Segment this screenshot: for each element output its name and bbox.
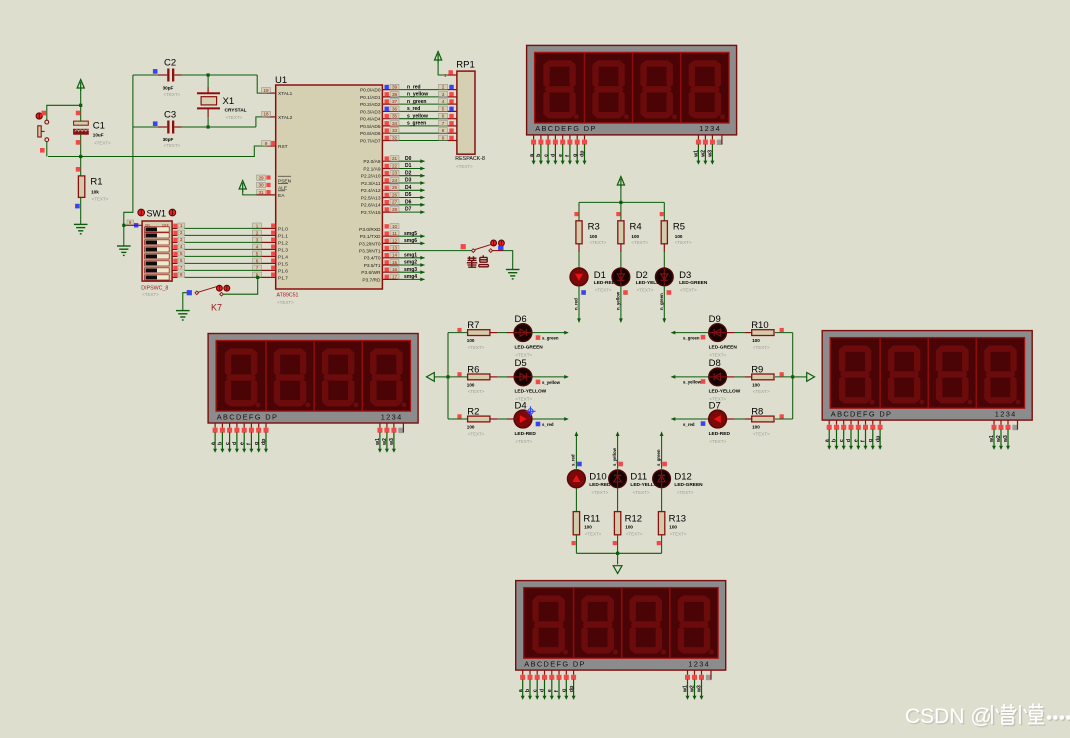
SW1 slider 3 [145,240,170,245]
resistor R10 [775,332,793,334]
actuator markers (red circles) [491,240,497,246]
DIP switch SW1 DIPSWC_8 [142,221,172,281]
wire D2 to terminal [620,286,622,322]
7-seg display DISP4 (bottom/south) [516,581,726,700]
resistor R9 [775,376,793,378]
svg-text:D4: D4 [515,400,527,411]
watermark CSDN [905,705,993,730]
pin P3.6/WR (16) [385,267,389,271]
capacitor C3 [167,121,174,134]
svg-text:P1.1: P1.1 [278,233,288,239]
svg-text:R3: R3 [588,222,600,233]
node RST junction [79,155,82,158]
pin P3.5/T1 (15) [385,260,389,264]
label 紧急 (emergency) [467,255,489,267]
7-seg display DISP3 (right/east) [822,331,1032,450]
pin XTAL1 (19) [267,92,276,94]
wire R4 to D2 [620,244,622,252]
svg-text:<TEXT>: <TEXT> [595,288,612,293]
svg-text:100: 100 [752,338,760,343]
svg-text:P1.5: P1.5 [278,261,288,267]
pin P3.3/INT1 (13) [385,246,389,250]
svg-text:XTAL2: XTAL2 [278,115,293,121]
svg-text:s_red: s_red [683,422,695,427]
svg-text:D2: D2 [636,270,648,281]
svg-text:P1.4: P1.4 [278,254,288,260]
svg-text:5: 5 [180,251,183,256]
svg-text:D8: D8 [709,358,721,369]
svg-text:n_yellow: n_yellow [615,291,620,310]
svg-text:P1.2: P1.2 [278,240,288,246]
wire terminal to D12 [660,431,664,436]
svg-text:P3.7/RD: P3.7/RD [362,277,381,283]
svg-text:100: 100 [625,525,633,530]
pin P3.7/RD (17) [385,275,389,279]
LED D7 LED-RED [709,410,727,428]
svg-text:R6: R6 [467,365,479,376]
svg-text:P1.3: P1.3 [278,247,288,253]
wire EA to power [243,192,257,195]
svg-text:P3.0/RXD: P3.0/RXD [359,227,381,233]
pin P2.1/A9 (22) wire D1 [382,168,398,170]
svg-text:11: 11 [392,231,397,236]
LED D10 LED-RED [568,470,586,488]
LED D9 LED-GREEN [709,324,727,342]
pin RST (9) [267,145,276,147]
svg-text:32: 32 [392,135,398,140]
svg-text:RP1: RP1 [456,60,474,71]
svg-text:3: 3 [180,237,183,242]
svg-text:6: 6 [180,258,183,263]
pin XTAL2 (18) [267,116,276,118]
wire button bottom [46,142,48,157]
wire R5 to D3 [663,244,665,252]
svg-text:<TEXT>: <TEXT> [709,352,726,357]
wire crystal vertical [207,75,209,87]
svg-text:<TEXT>: <TEXT> [626,532,643,537]
svg-text:SW1: SW1 [147,208,167,218]
svg-text:s_green: s_green [683,335,700,340]
svg-text:D0: D0 [405,156,412,162]
LED D12 LED-GREEN [653,470,671,488]
svg-text:R11: R11 [583,514,600,525]
LED D1 LED-RED [570,268,588,286]
svg-text:LED-RED: LED-RED [589,482,611,488]
wire SW1-3 to P1.2 [172,241,177,243]
svg-text:X1: X1 [223,96,235,107]
svg-text:34: 34 [392,121,398,126]
svg-text:100: 100 [752,382,760,387]
wire E bus [793,376,807,378]
wire SW1-7 to P1.6 [172,269,177,271]
svg-text:<TEXT>: <TEXT> [92,197,109,202]
svg-text:100: 100 [669,525,677,530]
svg-text:7: 7 [180,265,183,270]
svg-text:R9: R9 [751,365,763,376]
wire SW1-2 to P1.1 [172,234,177,236]
svg-text:<TEXT>: <TEXT> [277,300,294,305]
svg-text:6: 6 [442,114,445,119]
svg-text:1: 1 [180,223,183,228]
svg-text:<TEXT>: <TEXT> [753,389,770,394]
svg-text:100: 100 [752,425,760,430]
svg-text:<TEXT>: <TEXT> [709,439,726,444]
svg-text:LED-GREEN: LED-GREEN [515,344,544,350]
pin P0.2/AD2 (37) wire to RP1 [382,103,398,105]
wire terminal to D10 [575,431,579,436]
svg-text:P2.5/A13: P2.5/A13 [361,195,381,201]
svg-text:13: 13 [392,246,398,251]
resistor R7 [448,332,468,334]
wire D4 to terminal [532,418,567,420]
pin P2.2/A10 (23) wire D2 [382,175,398,177]
wire C1 leads [80,105,82,121]
ground (emergency) [506,270,520,279]
resistor pack RP1 RESPACK-8 [457,71,475,154]
svg-text:1: 1 [444,73,447,78]
svg-text:U1: U1 [275,75,287,86]
pin P0.4/AD4 (35) wire to RP1 [382,118,398,120]
svg-text:<TEXT>: <TEXT> [468,431,485,436]
svg-text:DIPSWC_8: DIPSWC_8 [141,285,168,291]
svg-text:23: 23 [392,171,398,176]
op-amp U1 AT89C51 body [276,85,383,289]
svg-text:4: 4 [180,244,183,249]
wire K7 left to ground [183,293,187,311]
capacitor C1 [74,121,90,134]
svg-text:n_green: n_green [659,293,664,310]
wire terminal to D8 [672,376,709,378]
terminal arrow into right display [807,373,815,382]
svg-text:R13: R13 [669,514,686,525]
LED D8 LED-YELLOW [709,368,727,386]
svg-text:P3.2/INT0: P3.2/INT0 [359,241,381,247]
wire terminal to D9 [672,332,709,334]
SW1 slider 7 [145,268,170,273]
pin P1.7 (8) [262,276,276,278]
wire R13 to S bus [661,535,663,554]
7-seg display DISP1 (left/west) [208,334,418,453]
svg-text:n_yellow: n_yellow [407,92,428,98]
resistor R5 [663,202,665,220]
pin P0.1/AD1 (38) wire to RP1 [382,96,398,98]
wire caps to ground [124,75,133,246]
wire XTAL2 [256,117,267,127]
pin P2.5/A13 (26) wire D5 [382,197,398,199]
power terminal VCC (reset circuit) [77,80,84,92]
terminal arrow into bottom display [613,566,622,574]
svg-text:<TEXT>: <TEXT> [590,240,607,245]
svg-text:16: 16 [392,267,398,272]
wire C3 row [133,126,158,128]
svg-text:P0.4/AD4: P0.4/AD4 [360,117,381,123]
svg-text:LED-GREEN: LED-GREEN [709,344,738,350]
wire S bus [576,552,661,554]
svg-text:<TEXT>: <TEXT> [515,439,532,444]
resistor R1 [80,157,82,176]
svg-text:R4: R4 [630,222,642,233]
wire R11 to S bus [575,535,577,554]
resistor R12 [617,488,619,511]
svg-text:R2: R2 [467,407,479,418]
svg-text:9: 9 [265,141,268,146]
svg-text:R5: R5 [673,222,685,233]
svg-text:22: 22 [392,163,398,168]
svg-text:21: 21 [392,156,398,161]
svg-text:s_red: s_red [571,454,576,466]
svg-text:<TEXT>: <TEXT> [631,240,648,245]
svg-text:smg5: smg5 [404,231,417,237]
svg-text:<TEXT>: <TEXT> [677,490,694,495]
resistor R2 [448,418,468,420]
wire R2 to D4 [490,418,497,420]
svg-text:D1: D1 [594,270,606,281]
wire P3.3 to switch [382,250,398,252]
svg-text:<TEXT>: <TEXT> [637,288,654,293]
svg-text:3: 3 [256,237,259,242]
pin P0.5/AD5 (34) wire to RP1 [382,125,398,127]
svg-text:P3.6/WR: P3.6/WR [361,270,381,276]
svg-text:P0.1/AD1: P0.1/AD1 [360,95,381,101]
svg-text:3: 3 [442,92,445,97]
svg-text:P2.6/A14: P2.6/A14 [361,203,381,209]
svg-text:R12: R12 [625,514,642,525]
push button RESET [38,120,49,141]
svg-text:100: 100 [631,234,639,239]
pin P0.0/AD0 (39) wire to RP1 [382,89,398,91]
svg-text:30: 30 [258,183,264,188]
svg-text:smg1: smg1 [404,252,417,258]
svg-text:14: 14 [392,253,398,258]
power terminal (EA) [239,181,246,193]
svg-text:33: 33 [392,128,398,133]
svg-text:100: 100 [467,338,475,343]
svg-text:D12: D12 [674,472,691,483]
ground (K7) [176,311,190,320]
pin P3.0/RXD (10) [385,224,389,228]
svg-text:30pF: 30pF [163,86,174,91]
watermark dots [1048,717,1070,722]
watermark hanzi [987,705,1046,726]
pin P1.5 (6) [262,262,276,264]
svg-text:7: 7 [442,121,445,126]
LED D11 LED-YELLOW [609,470,627,488]
svg-text:26: 26 [392,192,398,197]
svg-text:<TEXT>: <TEXT> [226,115,243,120]
svg-text:D6: D6 [515,314,527,325]
svg-text:LED-GREEN: LED-GREEN [679,280,708,286]
svg-text:P2.3/A11: P2.3/A11 [361,181,381,187]
pin P3.4/T0 (14) [385,253,389,257]
wire D1 to terminal [578,286,580,322]
svg-text:EA: EA [278,193,285,199]
svg-text:D1: D1 [405,163,412,169]
power terminal (RP1 pin1) [435,52,442,64]
svg-text:<TEXT>: <TEXT> [164,92,181,97]
svg-text:s_yellow: s_yellow [683,380,702,385]
wire R7 to D6 [490,332,497,334]
svg-text:5: 5 [442,106,445,111]
SW1 slider 6 [145,261,170,266]
svg-text:s_green: s_green [542,336,559,341]
svg-text:<TEXT>: <TEXT> [94,141,111,146]
svg-text:D2: D2 [405,170,412,176]
resistor R3 [578,202,580,220]
pin EA (31) [257,190,266,195]
LED D5 LED-YELLOW [514,368,532,386]
svg-text:D3: D3 [679,270,691,281]
svg-text:2: 2 [256,230,259,235]
pin ALE (30) [257,182,266,187]
resistor R11 [575,488,577,511]
svg-text:P2.2/A10: P2.2/A10 [361,174,381,180]
svg-text:D7: D7 [709,400,721,411]
svg-text:s_yellow: s_yellow [612,447,617,466]
pin P0.6/AD6 (33) wire to RP1 [382,132,398,134]
wire R8 to D7 [745,418,752,420]
svg-text:s_yellow: s_yellow [542,380,561,385]
resistor R8 [775,418,793,420]
svg-text:P3.4/T0: P3.4/T0 [364,256,381,262]
svg-text:n_red: n_red [407,84,421,90]
svg-text:R8: R8 [751,407,763,418]
svg-text:D7: D7 [405,207,412,213]
SW1 slider 5 [145,254,170,259]
capacitor C2 [167,69,174,82]
svg-text:35: 35 [392,114,398,119]
wire XTAL1 [257,75,266,93]
svg-text:R10: R10 [751,320,768,331]
pin P1.4 (5) [262,255,276,257]
svg-text:P1.6: P1.6 [278,268,288,274]
svg-text:<TEXT>: <TEXT> [456,164,473,169]
svg-text:10: 10 [392,224,398,229]
svg-text:37: 37 [392,99,398,104]
svg-text:8: 8 [180,272,183,277]
svg-text:<TEXT>: <TEXT> [468,389,485,394]
svg-text:2: 2 [442,85,445,90]
pin P2.0/A8 (21) wire D0 [382,160,398,162]
svg-text:D9: D9 [709,314,721,325]
svg-text:12: 12 [392,238,398,243]
pin P2.6/A14 (27) wire D6 [382,204,398,206]
svg-text:LED-YELLOW: LED-YELLOW [515,389,547,395]
svg-text:s_green: s_green [407,121,426,127]
wire R10 to D9 [745,332,752,334]
svg-text:24: 24 [392,178,398,183]
svg-text:P0.0/AD0: P0.0/AD0 [360,88,381,94]
ground (reset) [74,224,88,233]
svg-text:P2.1/A9: P2.1/A9 [363,166,380,172]
svg-text:<TEXT>: <TEXT> [515,352,532,357]
wire SW1-4 to P1.3 [172,248,177,250]
wire W bus [434,376,448,378]
wire RST net [48,146,267,157]
wire SW1-1 to P1.0 [172,227,177,229]
svg-text:C3: C3 [164,110,176,121]
svg-text:R1: R1 [90,177,102,188]
svg-text:LED-GREEN: LED-GREEN [674,482,703,488]
switch K7 [187,290,192,295]
LED D3 LED-GREEN [656,268,674,286]
svg-text:19: 19 [263,88,269,93]
svg-text:100: 100 [467,382,475,387]
wire D3 to terminal [663,286,665,322]
crystal X1 [197,93,220,108]
pin P3.1/TXD (11) [385,231,389,235]
svg-text:4: 4 [442,99,445,104]
svg-text:10uF: 10uF [93,133,104,138]
resistor R6 [448,376,468,378]
svg-text:LED-RED: LED-RED [515,431,537,437]
svg-text:C2: C2 [164,58,176,69]
pin P2.3/A11 (24) wire D3 [382,182,398,184]
switch (emergency) [471,244,492,252]
svg-text:smg6: smg6 [404,238,417,244]
SW1 slider 8 [145,275,170,280]
svg-text:<TEXT>: <TEXT> [164,143,181,148]
terminal arrow into left display [427,373,435,382]
pin P1.2 (3) [262,241,276,243]
svg-text:<TEXT>: <TEXT> [585,532,602,537]
svg-text:P0.2/AD2: P0.2/AD2 [360,102,381,108]
wire reset top [80,90,82,105]
svg-text:smg4: smg4 [404,274,417,280]
svg-text:18: 18 [263,112,269,117]
svg-text:8: 8 [442,128,445,133]
svg-text:P1.0: P1.0 [278,226,288,232]
wire D6 to terminal [532,332,567,334]
svg-text:P0.5/AD5: P0.5/AD5 [360,124,381,130]
svg-text:LED-YELLOW: LED-YELLOW [709,389,741,395]
pin P3.2/INT0 (12) [385,239,389,243]
svg-text:s_red: s_red [407,106,420,112]
svg-text:<TEXT>: <TEXT> [592,490,609,495]
svg-text:D6: D6 [405,199,412,205]
svg-text:2: 2 [180,230,183,235]
actuator marker (red circle) [36,113,42,119]
svg-text:smg3: smg3 [404,267,417,273]
svg-text:<TEXT>: <TEXT> [753,431,770,436]
svg-text:D5: D5 [405,192,412,198]
svg-text:n_green: n_green [407,99,426,105]
svg-text:<TEXT>: <TEXT> [468,345,485,350]
svg-text:D5: D5 [515,358,527,369]
svg-text:RESPACK-8: RESPACK-8 [455,156,485,162]
pin P0.7/AD7 (32) wire to RP1 [382,140,398,142]
svg-text:38: 38 [392,92,398,97]
pin PSEN (29) [257,175,266,180]
wire SW1-8 to P1.7 [172,276,177,278]
wire C2 row [133,74,158,76]
power terminal (N LEDs) [617,177,624,189]
svg-text:100: 100 [590,234,598,239]
svg-text:<TEXT>: <TEXT> [680,288,697,293]
pin P2.4/A12 (25) wire D4 [382,189,398,191]
svg-text:P0.6/AD6: P0.6/AD6 [360,131,381,137]
svg-text:<TEXT>: <TEXT> [675,240,692,245]
svg-text:100: 100 [467,425,475,430]
svg-text:s_green: s_green [656,449,661,466]
svg-text:smg2: smg2 [404,260,417,266]
svg-text:P3.5/T1: P3.5/T1 [364,263,381,269]
svg-text:<TEXT>: <TEXT> [670,532,687,537]
pin P1.1 (2) [262,234,276,236]
svg-text:9: 9 [442,135,445,140]
resistor R4 [620,202,622,220]
svg-text:P2.0/A8: P2.0/A8 [363,159,380,165]
svg-text:30pF: 30pF [163,137,174,142]
